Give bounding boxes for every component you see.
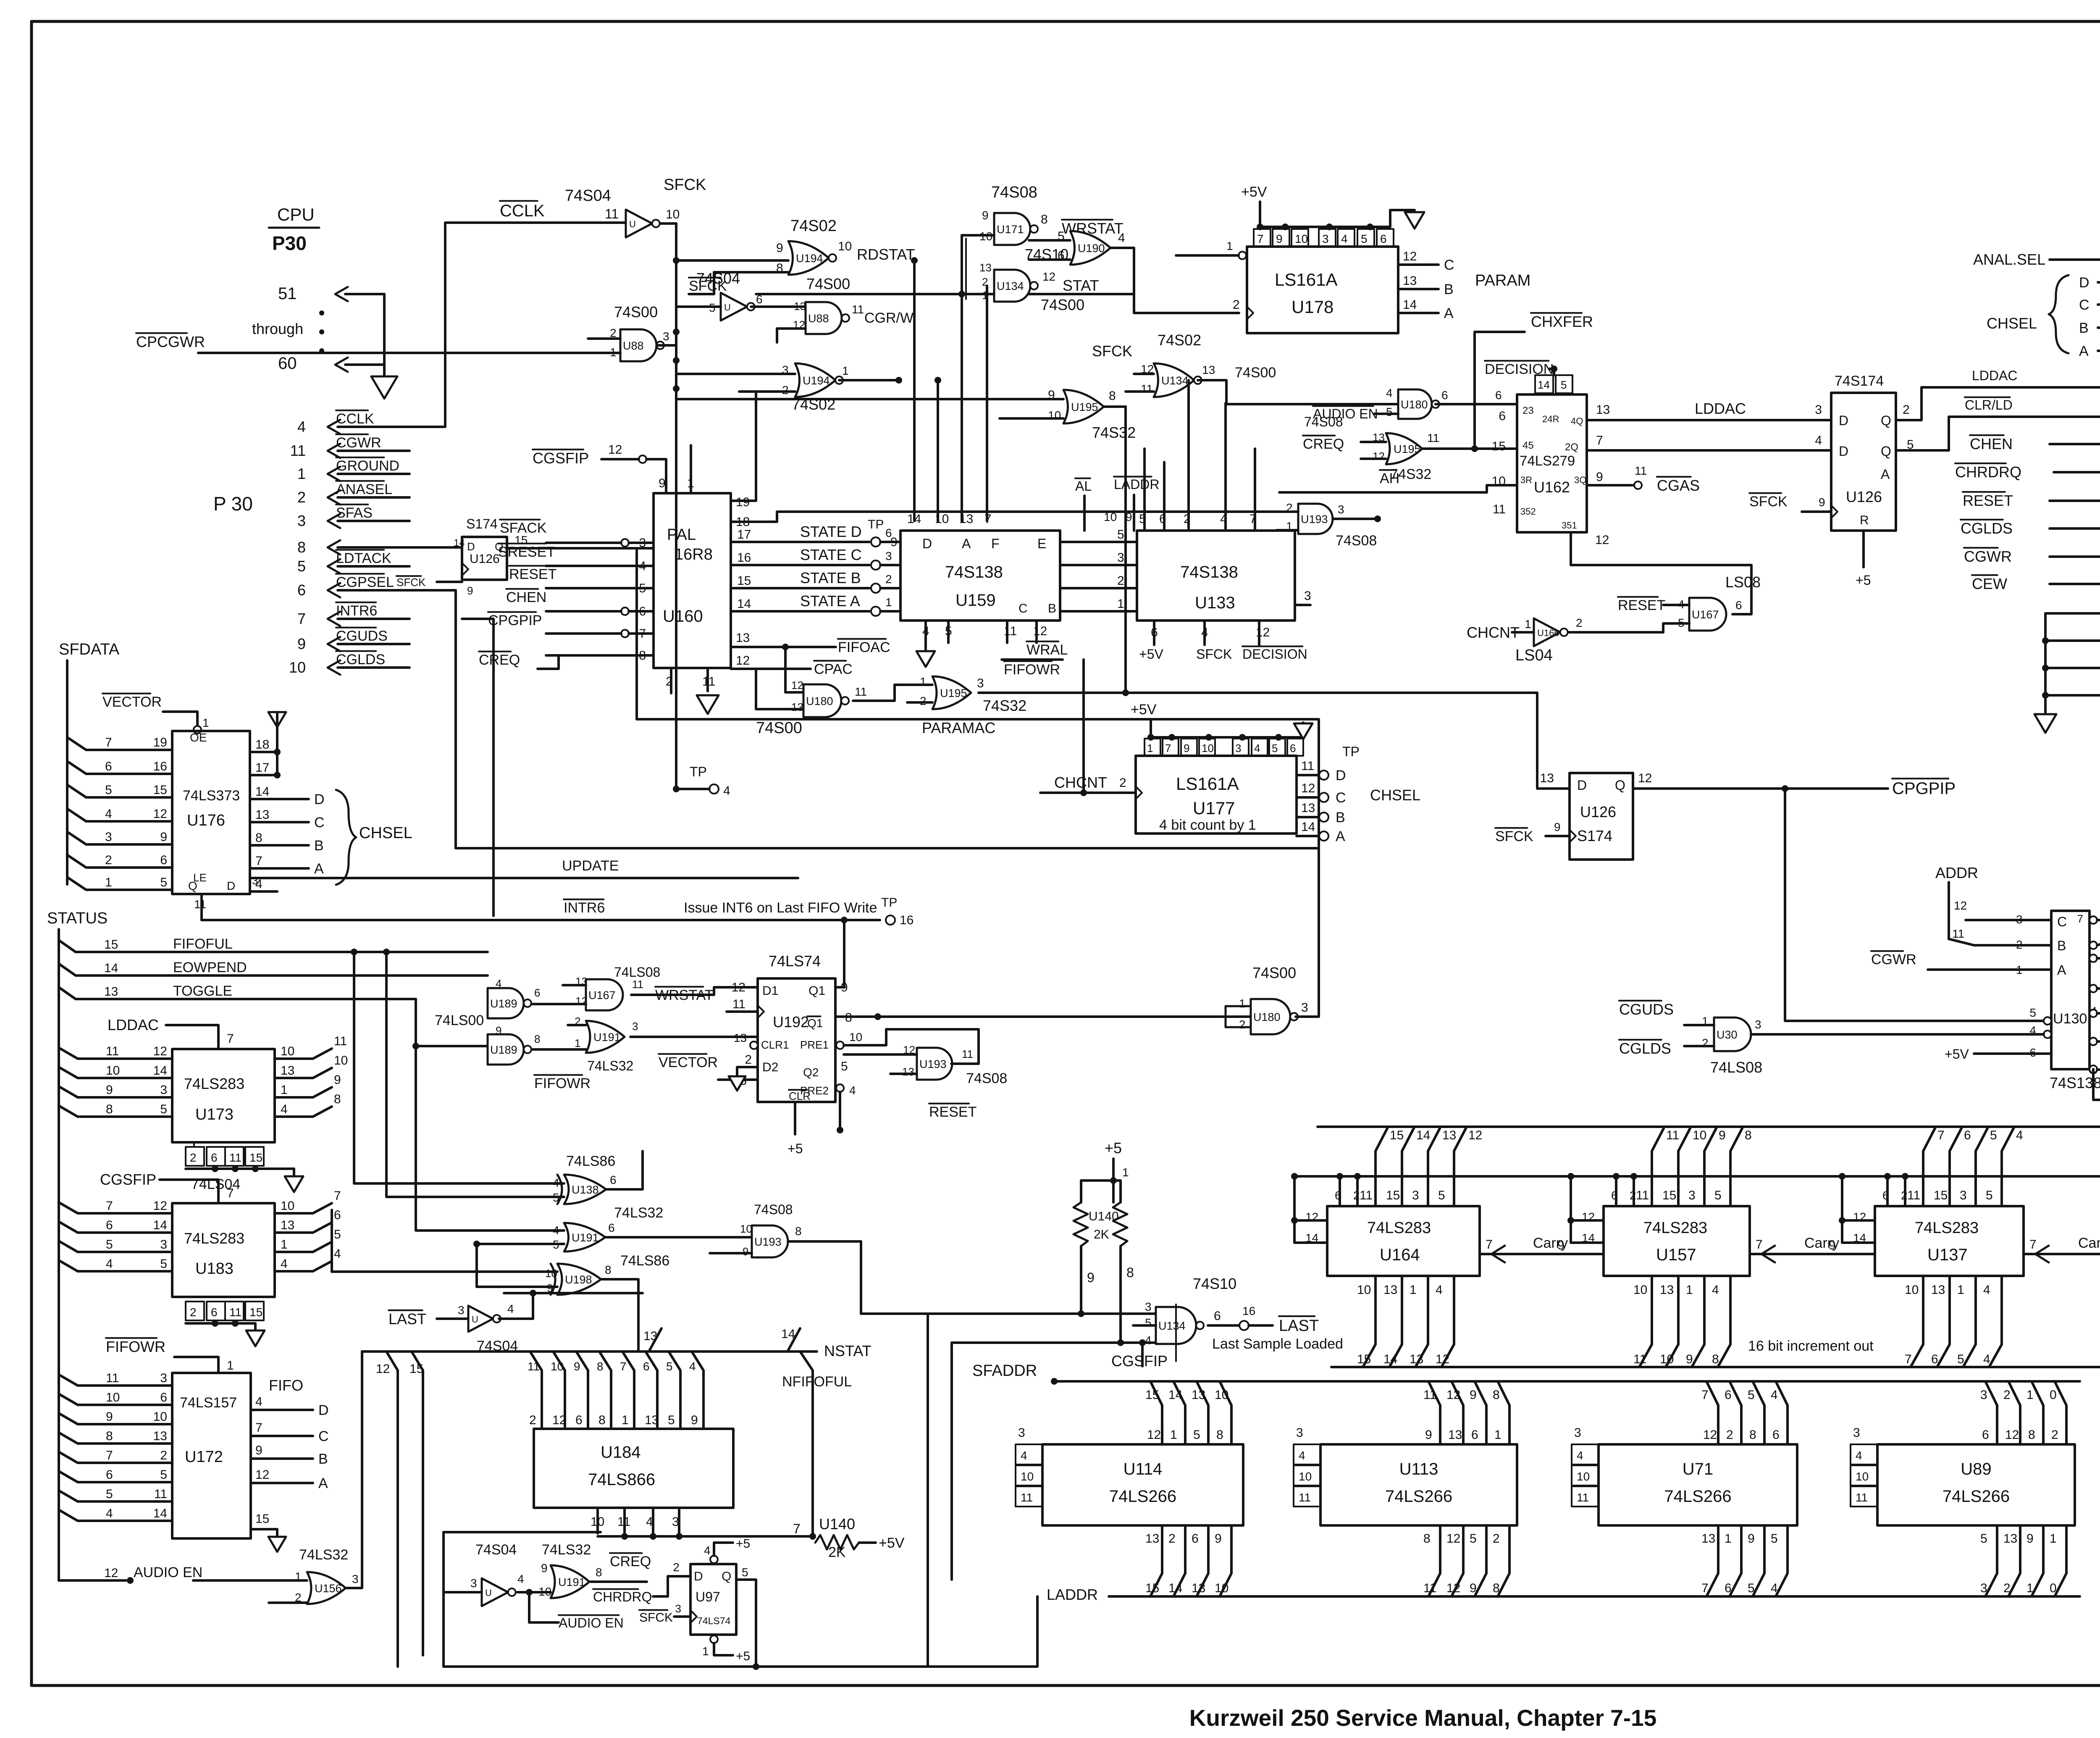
svg-text:U177: U177 xyxy=(1193,798,1235,818)
svg-text:11: 11 xyxy=(1856,1491,1868,1504)
svg-text:9: 9 xyxy=(982,209,989,222)
svg-text:VECTOR: VECTOR xyxy=(659,1054,718,1070)
svg-text:SFADDR: SFADDR xyxy=(972,1362,1037,1380)
svg-text:A: A xyxy=(962,536,971,551)
svg-text:13: 13 xyxy=(1301,801,1315,815)
svg-text:U140: U140 xyxy=(819,1515,855,1533)
svg-text:4: 4 xyxy=(281,1257,288,1271)
svg-text:6: 6 xyxy=(575,1413,583,1427)
svg-text:5: 5 xyxy=(1957,1352,1964,1366)
svg-text:U167: U167 xyxy=(1692,608,1719,621)
svg-text:CGAS: CGAS xyxy=(1657,477,1700,494)
svg-text:U133: U133 xyxy=(1195,594,1235,612)
svg-text:U164: U164 xyxy=(1380,1246,1420,1264)
svg-text:10: 10 xyxy=(1856,1470,1869,1483)
svg-text:WRSTAT: WRSTAT xyxy=(655,987,714,1003)
svg-text:EOWPEND: EOWPEND xyxy=(173,960,247,975)
svg-text:S174: S174 xyxy=(466,516,498,531)
svg-text:4: 4 xyxy=(517,1572,524,1585)
svg-text:3: 3 xyxy=(1304,589,1311,603)
svg-text:FIFOWR: FIFOWR xyxy=(1004,662,1060,678)
svg-text:2: 2 xyxy=(297,489,306,506)
svg-text:SFCK: SFCK xyxy=(1092,342,1132,360)
svg-text:LS161A: LS161A xyxy=(1275,270,1337,289)
svg-text:74S00: 74S00 xyxy=(1252,964,1296,981)
svg-text:3: 3 xyxy=(675,1602,681,1615)
svg-text:2Q: 2Q xyxy=(1565,442,1578,453)
svg-text:74S10: 74S10 xyxy=(1193,1275,1236,1292)
svg-text:8: 8 xyxy=(1493,1388,1500,1402)
svg-text:9: 9 xyxy=(691,1413,698,1427)
svg-text:U134: U134 xyxy=(997,280,1024,292)
svg-text:U166: U166 xyxy=(1537,628,1559,638)
svg-text:14: 14 xyxy=(255,785,269,799)
svg-text:2: 2 xyxy=(1726,1428,1733,1442)
svg-text:11: 11 xyxy=(855,685,867,698)
svg-text:CREQ: CREQ xyxy=(479,652,520,668)
svg-text:5: 5 xyxy=(742,1566,748,1579)
svg-text:74LS266: 74LS266 xyxy=(1385,1487,1452,1506)
svg-text:A: A xyxy=(1336,828,1345,844)
svg-text:B: B xyxy=(318,1451,328,1467)
svg-text:2: 2 xyxy=(190,1306,197,1319)
svg-text:U194: U194 xyxy=(796,252,823,265)
svg-text:CPU: CPU xyxy=(277,205,315,224)
svg-text:ADDR: ADDR xyxy=(1935,864,1978,881)
svg-text:4: 4 xyxy=(1436,1283,1443,1297)
svg-text:11: 11 xyxy=(1423,1388,1436,1402)
svg-text:ANASEL: ANASEL xyxy=(336,481,392,497)
svg-text:B: B xyxy=(314,838,324,854)
svg-text:8: 8 xyxy=(1749,1428,1756,1442)
svg-text:9: 9 xyxy=(106,1410,113,1424)
svg-text:5: 5 xyxy=(1771,1532,1778,1546)
svg-text:3: 3 xyxy=(160,1371,167,1385)
svg-text:12: 12 xyxy=(1446,1388,1460,1402)
svg-text:D: D xyxy=(1336,768,1346,784)
svg-text:5: 5 xyxy=(160,1102,167,1116)
svg-text:12: 12 xyxy=(104,1566,118,1580)
svg-text:U: U xyxy=(485,1588,492,1598)
svg-text:B: B xyxy=(2079,320,2089,336)
svg-text:15: 15 xyxy=(1662,1188,1676,1202)
svg-text:U160: U160 xyxy=(663,607,703,626)
svg-text:B: B xyxy=(1336,810,1345,826)
svg-text:3: 3 xyxy=(1755,1018,1761,1031)
svg-text:INTR6: INTR6 xyxy=(564,900,605,916)
svg-text:4: 4 xyxy=(1983,1283,1990,1297)
svg-text:17: 17 xyxy=(737,528,751,542)
svg-text:2: 2 xyxy=(1117,574,1124,588)
svg-text:6: 6 xyxy=(1725,1581,1732,1595)
svg-text:6: 6 xyxy=(1380,232,1387,245)
svg-text:RESET: RESET xyxy=(509,566,556,582)
svg-text:60: 60 xyxy=(278,354,297,373)
svg-text:GROUND: GROUND xyxy=(336,458,399,474)
svg-text:AH: AH xyxy=(1380,471,1399,486)
svg-text:12: 12 xyxy=(153,807,167,821)
svg-text:11: 11 xyxy=(194,898,206,911)
svg-text:12: 12 xyxy=(1468,1128,1482,1142)
svg-text:15: 15 xyxy=(1934,1188,1948,1202)
svg-text:STATE D: STATE D xyxy=(800,523,862,540)
svg-text:1: 1 xyxy=(1117,597,1124,611)
svg-text:U176: U176 xyxy=(187,812,225,829)
svg-text:U126: U126 xyxy=(1846,488,1882,505)
svg-text:U191: U191 xyxy=(593,1031,621,1044)
svg-text:C: C xyxy=(2079,297,2089,313)
svg-text:7: 7 xyxy=(106,1199,113,1213)
svg-text:LADDR: LADDR xyxy=(1114,477,1159,492)
svg-text:74LS283: 74LS283 xyxy=(184,1230,244,1247)
svg-text:10: 10 xyxy=(281,1044,294,1058)
svg-text:7: 7 xyxy=(1937,1128,1945,1142)
svg-text:6: 6 xyxy=(1495,389,1502,402)
svg-text:Q: Q xyxy=(1881,444,1891,459)
svg-text:1: 1 xyxy=(2050,1532,2057,1546)
svg-text:5: 5 xyxy=(1714,1188,1722,1202)
svg-text:12: 12 xyxy=(736,654,750,668)
svg-text:D: D xyxy=(2079,275,2089,291)
svg-text:74S02: 74S02 xyxy=(1158,331,1201,349)
svg-text:8: 8 xyxy=(334,1092,341,1106)
svg-text:U114: U114 xyxy=(1123,1460,1163,1478)
svg-text:8: 8 xyxy=(605,1263,612,1276)
svg-text:1: 1 xyxy=(2026,1581,2034,1595)
svg-text:Q: Q xyxy=(1881,413,1891,428)
svg-text:10: 10 xyxy=(1215,1388,1228,1402)
svg-text:9: 9 xyxy=(659,476,666,490)
svg-text:U183: U183 xyxy=(195,1260,234,1278)
svg-text:9: 9 xyxy=(1686,1352,1693,1366)
svg-text:LDDAC: LDDAC xyxy=(1695,400,1746,417)
svg-text:16: 16 xyxy=(737,551,751,565)
svg-text:1: 1 xyxy=(297,465,306,482)
svg-text:SFCK: SFCK xyxy=(1196,647,1232,662)
svg-text:74S174: 74S174 xyxy=(1835,373,1884,389)
svg-text:+5V: +5V xyxy=(879,1535,905,1551)
svg-text:10: 10 xyxy=(838,239,852,253)
svg-text:1: 1 xyxy=(842,364,849,377)
svg-text:5: 5 xyxy=(1145,1316,1152,1329)
svg-text:2: 2 xyxy=(1168,1532,1176,1546)
svg-text:Last Sample Loaded: Last Sample Loaded xyxy=(1212,1336,1343,1352)
svg-text:74S00: 74S00 xyxy=(614,303,658,321)
svg-text:AUDIO EN: AUDIO EN xyxy=(559,1615,624,1630)
svg-text:15: 15 xyxy=(249,1151,262,1164)
svg-text:U: U xyxy=(629,219,636,229)
svg-text:74S00: 74S00 xyxy=(1041,296,1084,313)
svg-text:16: 16 xyxy=(153,760,167,773)
svg-text:D: D xyxy=(314,791,325,807)
svg-text:9: 9 xyxy=(1276,232,1283,245)
svg-text:5: 5 xyxy=(1272,742,1278,755)
svg-text:12: 12 xyxy=(255,1468,269,1482)
svg-text:FIFOWR: FIFOWR xyxy=(534,1075,591,1091)
svg-text:Q: Q xyxy=(1615,778,1625,793)
svg-text:CGLDS: CGLDS xyxy=(336,652,385,668)
svg-text:3: 3 xyxy=(977,676,984,690)
svg-text:11: 11 xyxy=(1021,1491,1033,1504)
svg-text:7: 7 xyxy=(106,1449,113,1462)
svg-text:CGSFIP: CGSFIP xyxy=(100,1171,156,1188)
svg-text:4: 4 xyxy=(1815,434,1822,447)
svg-text:D2: D2 xyxy=(762,1060,778,1074)
svg-text:11: 11 xyxy=(1301,759,1314,773)
svg-text:AL: AL xyxy=(1075,479,1092,494)
svg-text:13: 13 xyxy=(645,1413,659,1427)
svg-text:11: 11 xyxy=(154,1487,167,1501)
svg-text:LAST: LAST xyxy=(388,1310,426,1328)
svg-text:U89: U89 xyxy=(1961,1460,1991,1478)
svg-text:6: 6 xyxy=(1192,1532,1199,1546)
svg-text:VECTOR: VECTOR xyxy=(102,694,162,710)
svg-text:4: 4 xyxy=(704,1544,711,1557)
svg-text:6: 6 xyxy=(1735,599,1742,612)
svg-text:9: 9 xyxy=(1184,742,1189,755)
svg-text:3Q: 3Q xyxy=(1574,475,1586,485)
svg-text:12: 12 xyxy=(608,443,622,457)
svg-text:3: 3 xyxy=(1853,1426,1860,1440)
svg-text:LADDR: LADDR xyxy=(1047,1586,1098,1603)
svg-text:11: 11 xyxy=(1635,464,1647,477)
svg-text:9: 9 xyxy=(743,1245,748,1258)
svg-text:CPGPIP: CPGPIP xyxy=(1892,779,1956,798)
svg-text:3: 3 xyxy=(663,330,669,343)
svg-text:U140: U140 xyxy=(1089,1210,1119,1223)
svg-text:PARAM: PARAM xyxy=(1475,272,1530,289)
svg-text:U189: U189 xyxy=(490,1044,517,1056)
svg-text:Carry: Carry xyxy=(2078,1235,2100,1251)
svg-text:5: 5 xyxy=(106,1487,113,1501)
svg-text:4: 4 xyxy=(106,1257,113,1271)
svg-text:U193: U193 xyxy=(754,1236,782,1248)
svg-text:13: 13 xyxy=(281,1218,294,1232)
svg-text:0: 0 xyxy=(2050,1581,2057,1595)
svg-text:13: 13 xyxy=(1540,771,1554,785)
svg-text:74LS32: 74LS32 xyxy=(542,1542,591,1558)
svg-text:RESET: RESET xyxy=(1963,492,2013,509)
svg-text:2K: 2K xyxy=(828,1544,846,1560)
svg-text:5: 5 xyxy=(1438,1188,1445,1202)
svg-text:A: A xyxy=(2079,343,2089,359)
svg-text:15: 15 xyxy=(1145,1388,1159,1402)
svg-text:F: F xyxy=(991,536,1000,551)
svg-text:4: 4 xyxy=(1771,1581,1778,1595)
svg-text:11: 11 xyxy=(1004,624,1017,638)
svg-text:A: A xyxy=(1881,467,1890,482)
svg-text:CCLK: CCLK xyxy=(500,202,545,220)
svg-text:+5: +5 xyxy=(1856,573,1871,588)
svg-text:352: 352 xyxy=(1520,506,1536,517)
svg-text:3: 3 xyxy=(1018,1426,1025,1440)
svg-text:14: 14 xyxy=(1383,1352,1397,1366)
svg-text:1: 1 xyxy=(1122,1166,1129,1179)
svg-text:9: 9 xyxy=(1748,1532,1755,1546)
svg-text:13: 13 xyxy=(794,300,806,313)
svg-text:15: 15 xyxy=(1390,1128,1404,1142)
svg-text:4: 4 xyxy=(849,1084,856,1097)
svg-text:74S04: 74S04 xyxy=(477,1338,518,1354)
svg-text:SFCK: SFCK xyxy=(1749,494,1788,510)
svg-text:CHSEL: CHSEL xyxy=(1987,315,2037,332)
svg-text:9: 9 xyxy=(297,635,306,652)
svg-text:9: 9 xyxy=(1215,1532,1222,1546)
svg-text:8: 8 xyxy=(1423,1532,1431,1546)
svg-text:Q: Q xyxy=(722,1570,731,1583)
svg-text:12: 12 xyxy=(1301,781,1315,795)
svg-text:3: 3 xyxy=(105,830,112,844)
svg-text:STATE A: STATE A xyxy=(800,592,860,610)
svg-text:CGPSEL: CGPSEL xyxy=(336,574,394,590)
svg-text:24R: 24R xyxy=(1542,414,1559,424)
svg-text:U198: U198 xyxy=(565,1273,592,1286)
svg-text:14: 14 xyxy=(153,1064,167,1078)
svg-text:13: 13 xyxy=(979,261,992,274)
svg-text:Issue INT6 on Last FIFO Write: Issue INT6 on Last FIFO Write xyxy=(684,900,877,916)
svg-text:U137: U137 xyxy=(1927,1246,1968,1264)
svg-text:7: 7 xyxy=(105,736,112,749)
svg-text:13: 13 xyxy=(1448,1428,1462,1442)
svg-text:C: C xyxy=(1336,790,1346,806)
svg-text:CHXFER: CHXFER xyxy=(1531,313,1593,330)
svg-text:U134: U134 xyxy=(1161,374,1189,387)
svg-text:13: 13 xyxy=(1403,274,1417,288)
svg-text:13: 13 xyxy=(734,1031,747,1044)
svg-text:74LS08: 74LS08 xyxy=(1710,1059,1762,1076)
svg-text:74LS74: 74LS74 xyxy=(697,1615,731,1626)
svg-text:19: 19 xyxy=(736,495,750,509)
svg-text:10: 10 xyxy=(106,1391,120,1404)
svg-text:3: 3 xyxy=(632,1020,638,1033)
svg-text:74LS86: 74LS86 xyxy=(566,1153,615,1169)
svg-text:11: 11 xyxy=(1636,1188,1649,1202)
svg-text:9: 9 xyxy=(1819,496,1825,509)
svg-text:U180: U180 xyxy=(1253,1011,1281,1023)
svg-text:10: 10 xyxy=(1299,1470,1312,1483)
svg-text:7: 7 xyxy=(1701,1388,1709,1402)
svg-text:5: 5 xyxy=(160,1468,167,1482)
svg-text:10: 10 xyxy=(935,512,949,526)
svg-text:B: B xyxy=(1048,602,1056,615)
svg-text:11: 11 xyxy=(1633,1352,1646,1366)
svg-text:4 bit count by 1: 4 bit count by 1 xyxy=(1159,817,1256,833)
svg-text:74LS283: 74LS283 xyxy=(1915,1219,1979,1237)
svg-text:3: 3 xyxy=(297,512,306,529)
svg-text:TOGGLE: TOGGLE xyxy=(173,983,232,999)
svg-text:12: 12 xyxy=(153,1044,167,1058)
svg-text:10: 10 xyxy=(740,1223,752,1235)
svg-text:6: 6 xyxy=(756,293,763,306)
svg-text:SFCK: SFCK xyxy=(1495,828,1533,844)
svg-text:U: U xyxy=(472,1314,478,1325)
svg-text:351: 351 xyxy=(1562,520,1577,531)
svg-text:7: 7 xyxy=(1257,232,1264,245)
svg-text:74S138: 74S138 xyxy=(945,563,1003,581)
svg-text:8: 8 xyxy=(1109,389,1116,403)
svg-text:7: 7 xyxy=(620,1360,627,1373)
svg-text:R: R xyxy=(1860,513,1869,527)
svg-text:U180: U180 xyxy=(1401,398,1428,411)
svg-text:U159: U159 xyxy=(955,591,996,610)
svg-text:2: 2 xyxy=(105,853,112,867)
svg-text:10: 10 xyxy=(1633,1283,1647,1297)
svg-text:TP: TP xyxy=(690,764,707,779)
svg-text:4: 4 xyxy=(723,784,730,798)
svg-text:5: 5 xyxy=(553,1238,559,1251)
svg-text:14: 14 xyxy=(1168,1388,1182,1402)
svg-text:15: 15 xyxy=(737,574,751,588)
svg-text:9: 9 xyxy=(776,241,783,255)
svg-text:U88: U88 xyxy=(808,312,829,325)
svg-text:74S08: 74S08 xyxy=(991,184,1037,201)
svg-text:U71: U71 xyxy=(1683,1460,1713,1478)
svg-text:9: 9 xyxy=(1087,1270,1095,1285)
svg-text:FIFOFUL: FIFOFUL xyxy=(173,936,233,952)
svg-text:LS04: LS04 xyxy=(1515,647,1553,664)
svg-text:6: 6 xyxy=(105,760,112,773)
svg-text:ANAL.SEL: ANAL.SEL xyxy=(1973,251,2045,268)
svg-text:6: 6 xyxy=(211,1306,218,1319)
svg-text:6: 6 xyxy=(106,1468,113,1482)
svg-text:SFCK: SFCK xyxy=(664,176,706,194)
svg-text:1: 1 xyxy=(1170,1428,1177,1442)
svg-text:1: 1 xyxy=(281,1238,288,1252)
svg-text:74LS00: 74LS00 xyxy=(435,1012,484,1028)
svg-text:4: 4 xyxy=(1983,1352,1990,1366)
svg-text:E: E xyxy=(1037,536,1046,551)
svg-text:15: 15 xyxy=(1357,1352,1371,1366)
svg-text:13: 13 xyxy=(255,808,269,822)
svg-text:FIFO: FIFO xyxy=(269,1377,303,1394)
svg-text:11: 11 xyxy=(962,1048,973,1060)
svg-text:9: 9 xyxy=(334,1073,341,1087)
svg-text:6: 6 xyxy=(1290,742,1296,755)
svg-text:10: 10 xyxy=(1202,742,1214,755)
svg-text:10: 10 xyxy=(1357,1283,1371,1297)
svg-text:2K: 2K xyxy=(1094,1228,1109,1241)
svg-text:7: 7 xyxy=(2077,912,2083,925)
svg-text:9: 9 xyxy=(1596,470,1603,484)
svg-text:1: 1 xyxy=(202,716,209,729)
svg-text:8: 8 xyxy=(597,1360,604,1373)
svg-text:LDTACK: LDTACK xyxy=(336,550,391,566)
svg-text:10: 10 xyxy=(1021,1470,1034,1483)
svg-text:7: 7 xyxy=(1756,1238,1763,1252)
svg-text:12: 12 xyxy=(1595,533,1609,547)
svg-text:+5: +5 xyxy=(1105,1139,1122,1157)
svg-text:PRE1: PRE1 xyxy=(800,1039,829,1051)
svg-text:12: 12 xyxy=(791,679,803,692)
svg-text:5: 5 xyxy=(1386,405,1393,418)
svg-text:CPAC: CPAC xyxy=(814,661,853,677)
svg-text:D: D xyxy=(318,1402,329,1418)
svg-text:13: 13 xyxy=(281,1064,294,1078)
svg-text:CHRDRQ: CHRDRQ xyxy=(1955,463,2021,481)
svg-text:15: 15 xyxy=(1145,1581,1159,1595)
svg-text:5: 5 xyxy=(1361,232,1368,245)
svg-text:13: 13 xyxy=(1596,403,1610,417)
svg-text:CGUDS: CGUDS xyxy=(336,628,388,644)
svg-text:8: 8 xyxy=(1216,1428,1223,1442)
svg-text:1: 1 xyxy=(920,675,927,688)
svg-text:5: 5 xyxy=(297,557,306,575)
svg-text:+5V: +5V xyxy=(1945,1046,1969,1062)
svg-text:12: 12 xyxy=(1147,1428,1161,1442)
svg-text:2: 2 xyxy=(1576,616,1583,629)
svg-text:U193: U193 xyxy=(919,1058,947,1070)
svg-text:2: 2 xyxy=(1493,1532,1500,1546)
